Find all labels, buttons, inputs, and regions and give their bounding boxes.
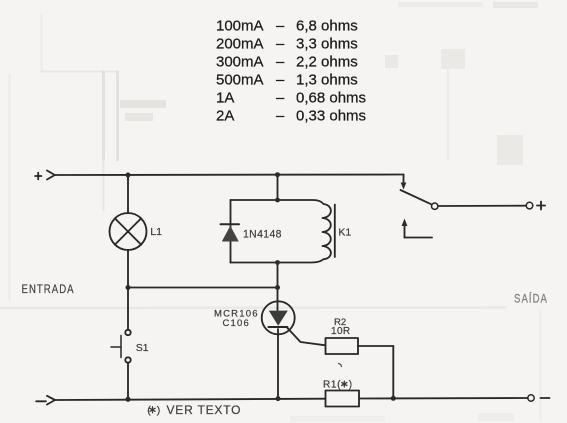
svg-text:): ) — [349, 380, 352, 391]
svg-text:S1: S1 — [136, 342, 149, 354]
svg-text:–: – — [276, 108, 285, 125]
svg-text:100mA: 100mA — [216, 18, 264, 35]
svg-text:6,8 ohms: 6,8 ohms — [296, 18, 358, 35]
svg-text:1N4148: 1N4148 — [243, 228, 282, 240]
svg-text:0,68 ohms: 0,68 ohms — [296, 90, 366, 107]
svg-text:1A: 1A — [216, 90, 234, 107]
svg-text:): ) — [157, 405, 161, 417]
svg-text:2A: 2A — [216, 108, 234, 125]
svg-text:VER TEXTO: VER TEXTO — [167, 403, 242, 417]
svg-text:–: – — [276, 36, 285, 53]
svg-text:–: – — [276, 54, 285, 71]
svg-text:C106: C106 — [223, 318, 251, 329]
svg-text:ENTRADA: ENTRADA — [22, 283, 75, 296]
svg-text:K1: K1 — [338, 227, 351, 239]
svg-text:10R: 10R — [331, 326, 351, 337]
svg-text:–: – — [276, 18, 285, 35]
svg-text:1,3 ohms: 1,3 ohms — [296, 72, 358, 89]
svg-text:–: – — [276, 90, 285, 107]
svg-text:0,33 ohms: 0,33 ohms — [296, 108, 366, 125]
svg-text:500mA: 500mA — [216, 72, 264, 89]
svg-text:R1(: R1( — [323, 380, 341, 391]
svg-text:–: – — [276, 72, 285, 89]
svg-text:200mA: 200mA — [216, 36, 264, 53]
svg-text:3,3 ohms: 3,3 ohms — [296, 36, 358, 53]
svg-text:300mA: 300mA — [216, 54, 264, 71]
svg-text:SAÍDA: SAÍDA — [514, 291, 548, 305]
svg-text:L1: L1 — [150, 226, 162, 238]
svg-text:2,2 ohms: 2,2 ohms — [296, 54, 358, 71]
